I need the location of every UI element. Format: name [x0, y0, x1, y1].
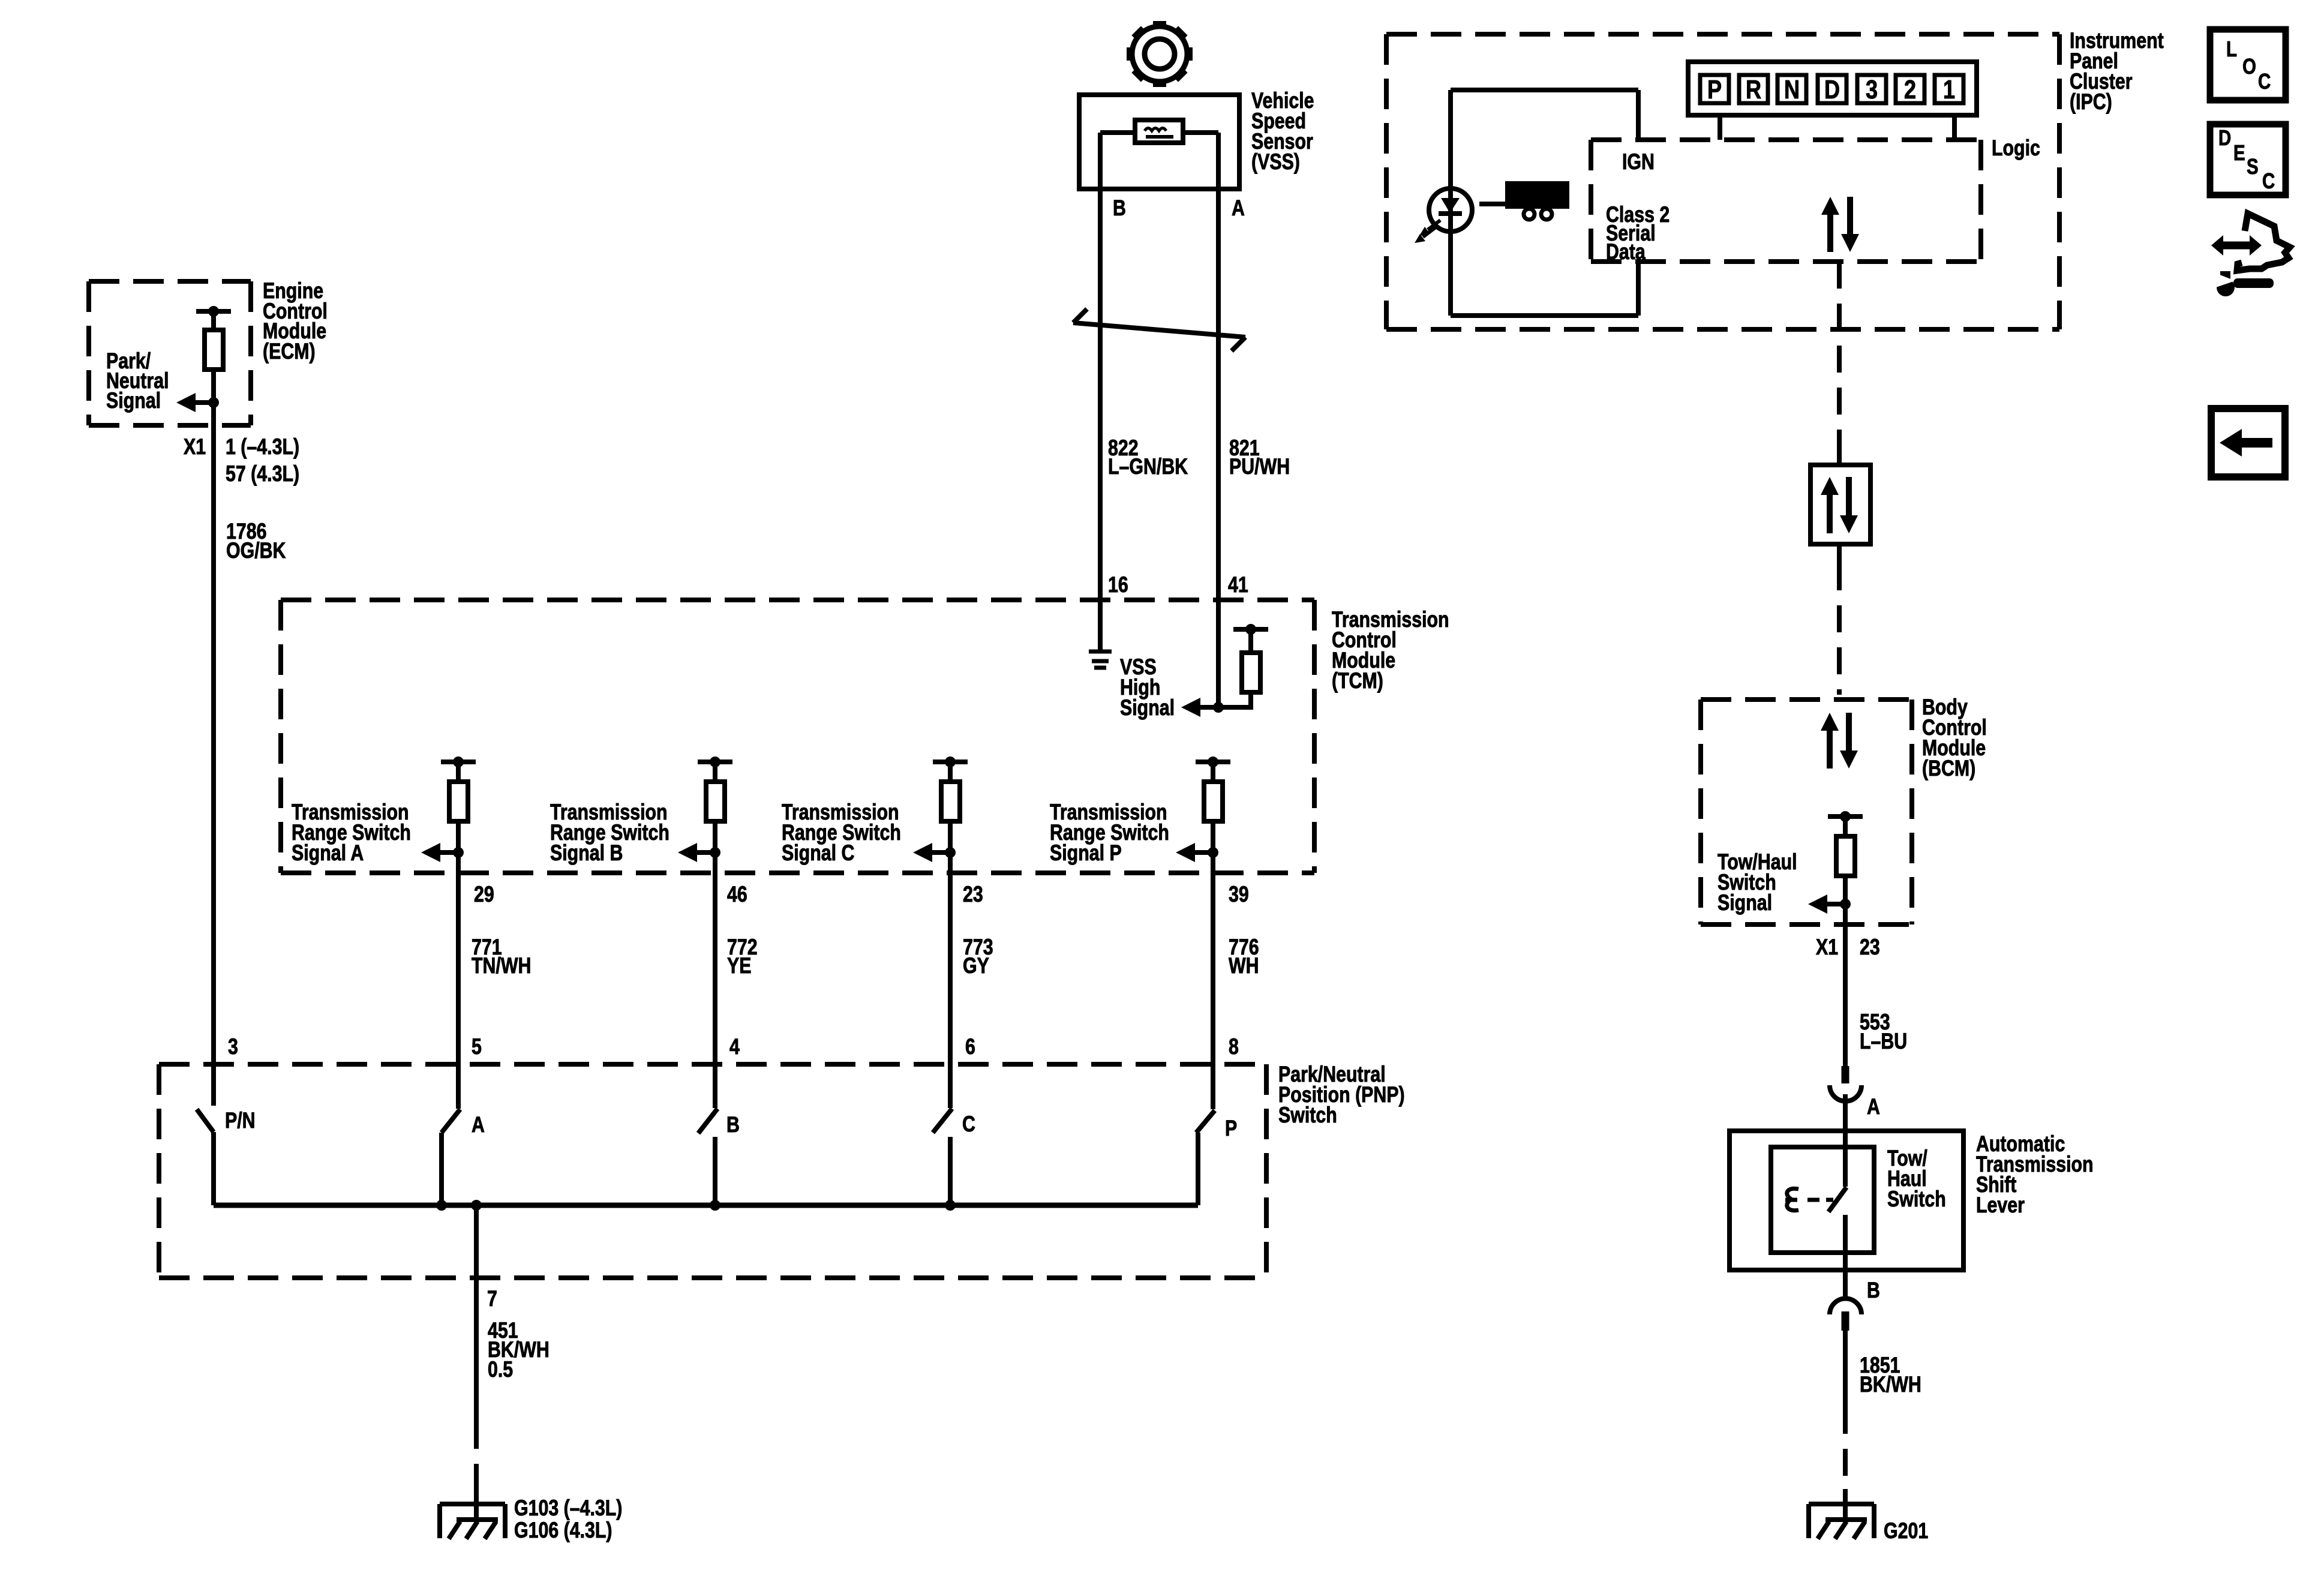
svg-text:IGN: IGN: [1622, 149, 1655, 175]
svg-text:A: A: [472, 1112, 485, 1137]
label TCM: [1332, 607, 1449, 694]
svg-text:WH: WH: [1229, 953, 1259, 978]
pin 4 label: [729, 1034, 740, 1059]
svg-text:OG/BK: OG/BK: [226, 538, 286, 563]
pin 6 label: [965, 1034, 975, 1059]
display segment 3: [1857, 75, 1886, 104]
wire elbow resistor to node 41: [1218, 705, 1253, 710]
svg-text:C: C: [2262, 169, 2275, 193]
svg-text:3: 3: [228, 1034, 238, 1059]
svg-text:Signal: Signal: [106, 388, 161, 413]
wire stub PRND to Logic left: [1718, 115, 1722, 140]
label wire 776 WH: [1229, 935, 1259, 978]
sensor element (VSS pickup coil): [1135, 120, 1183, 143]
svg-text:G201: G201: [1884, 1518, 1928, 1544]
label G106 (4.3L): [514, 1518, 612, 1543]
component box Tow/Haul Switch (inner): [1771, 1147, 1874, 1253]
svg-text:Signal A: Signal A: [292, 840, 364, 866]
label Class 2 Serial Data: [1606, 202, 1670, 265]
svg-text:B: B: [726, 1112, 740, 1137]
svg-text:57 (4.3L): 57 (4.3L): [226, 461, 299, 487]
switch P/N contact blade: [197, 1109, 214, 1205]
svg-text:(VSS): (VSS): [1251, 149, 1300, 175]
ground G103/G106: [440, 1489, 505, 1539]
display segment R: [1739, 75, 1768, 104]
pin 7 label: [487, 1286, 497, 1311]
label wire 451 BK/WH 0.5: [488, 1318, 550, 1382]
wire 553 L-BU from BCM to shift lever: [1843, 904, 1848, 1067]
pin 57 (4.3L) label: [226, 461, 299, 487]
svg-text:4: 4: [729, 1034, 740, 1059]
pin 23 label: [963, 882, 983, 907]
pin 39 label: [1229, 882, 1249, 907]
svg-text:G106 (4.3L): G106 (4.3L): [514, 1518, 612, 1543]
label wire 822 L-GN/BK: [1108, 436, 1188, 479]
icon box back-arrow: [2211, 409, 2285, 477]
svg-text:39: 39: [1229, 882, 1249, 907]
module box BCM (Body Control Module), dashed: [1701, 700, 1912, 924]
wire 773 GY: [948, 852, 953, 1108]
svg-text:D: D: [2218, 125, 2231, 149]
wire class 2 serial data dashed (to BCM): [1837, 563, 1842, 695]
module box ECM (Engine Control Module), dashed: [89, 281, 251, 425]
svg-text:A: A: [1867, 1094, 1880, 1119]
LED light emission arrows: [1415, 220, 1440, 243]
pin X1 label at BCM: [1816, 935, 1838, 960]
wire IPC indicator loop bottom: [1451, 210, 1638, 316]
arrow up (Logic serial data): [1821, 197, 1839, 252]
pin 5 label: [472, 1034, 482, 1059]
label switch P: [1225, 1116, 1237, 1141]
label switch B: [726, 1112, 740, 1137]
wire into tow/haul switch: [1843, 1130, 1848, 1187]
module box TCM (Transmission Control Module), dashed: [281, 600, 1314, 873]
wire 822 L-GN/BK from VSS B to TCM pin 16: [1098, 189, 1103, 650]
label ECM: [263, 278, 328, 364]
wire VSS inner loop: [1100, 133, 1218, 189]
arrow Transmission Range Switch Signal P (left): [1176, 843, 1213, 862]
svg-text:X1: X1: [184, 434, 206, 460]
svg-text:Signal B: Signal B: [550, 840, 623, 866]
node bus at switch B: [710, 1200, 720, 1211]
wire below tow/haul switch: [1843, 1215, 1848, 1296]
wire IPC indicator loop top: [1451, 90, 1638, 210]
svg-text:TN/WH: TN/WH: [472, 953, 531, 978]
svg-text:5: 5: [472, 1034, 482, 1059]
svg-text:P: P: [1225, 1116, 1237, 1141]
svg-text:PU/WH: PU/WH: [1229, 454, 1290, 479]
svg-text:Signal C: Signal C: [782, 840, 854, 866]
svg-text:L–GN/BK: L–GN/BK: [1108, 454, 1188, 479]
svg-text:C: C: [2258, 69, 2271, 93]
svg-text:D: D: [1824, 75, 1840, 104]
node bus at wire 7 tap: [471, 1200, 482, 1211]
arrow Transmission Range Switch Signal B (left): [678, 843, 715, 862]
svg-text:(TCM): (TCM): [1332, 668, 1383, 694]
wire 772 YE: [713, 852, 717, 1108]
svg-text:Lever: Lever: [1976, 1193, 2025, 1218]
arrow down (serial data box): [1840, 477, 1858, 533]
svg-text:8: 8: [1229, 1034, 1239, 1059]
pin 41 label at TCM: [1228, 572, 1248, 598]
switch A contact blade: [442, 1109, 460, 1205]
pin 23 label at BCM: [1860, 935, 1880, 960]
svg-text:23: 23: [1860, 935, 1880, 960]
node bus at switch C: [945, 1200, 956, 1211]
wire 1851 BK/WH from shift lever: [1843, 1331, 1848, 1407]
svg-text:(ECM): (ECM): [263, 339, 316, 364]
pin A label at VSS: [1232, 196, 1245, 221]
svg-text:Signal: Signal: [1120, 695, 1175, 721]
switch tow/haul blade: [1828, 1187, 1846, 1212]
ground G201: [1809, 1489, 1874, 1539]
svg-text:41: 41: [1228, 572, 1248, 598]
svg-text:C: C: [962, 1112, 975, 1137]
display segment D: [1818, 75, 1846, 104]
LED tow/haul indicator: [1429, 188, 1472, 232]
label wire 1851 BK/WH: [1860, 1353, 1921, 1397]
svg-text:Switch: Switch: [1887, 1187, 1946, 1212]
detent hook (tow/haul switch): [1785, 1188, 1798, 1210]
svg-text:0.5: 0.5: [488, 1357, 513, 1382]
resistor R-TRS-C inside TCM: [933, 757, 968, 852]
label wire 553 L-BU: [1860, 1010, 1907, 1054]
label Transmission Range Switch Signal A: [292, 800, 411, 866]
svg-text:B: B: [1113, 196, 1126, 221]
svg-text:23: 23: [963, 882, 983, 907]
display segment 1: [1935, 75, 1963, 104]
wire stub into serial data box: [1837, 451, 1842, 465]
svg-text:1: 1: [1943, 75, 1955, 104]
node bus at switch A: [436, 1200, 447, 1211]
resistor R-VSS pull-up inside TCM: [1233, 624, 1268, 707]
svg-text:Signal P: Signal P: [1050, 840, 1122, 866]
label switch A: [472, 1112, 485, 1137]
label IGN: [1622, 149, 1655, 175]
wire connector A to shift lever: [1843, 1094, 1848, 1131]
svg-text:GY: GY: [963, 953, 989, 978]
label G103 (-4.3L): [514, 1496, 622, 1521]
label Automatic Transmission Shift Lever: [1976, 1131, 2094, 1218]
svg-text:3: 3: [1866, 75, 1878, 104]
switch B contact blade: [698, 1109, 717, 1205]
resistor R-TRS-A inside TCM: [441, 757, 476, 852]
label wire 821 PU/WH: [1229, 436, 1290, 479]
logic box (IPC Logic), dashed: [1591, 140, 1981, 262]
svg-text:N: N: [1784, 75, 1800, 104]
arrow Transmission Range Switch Signal C (left): [913, 843, 950, 862]
pin 16 label at TCM: [1108, 572, 1128, 598]
svg-text:S: S: [2247, 154, 2259, 178]
wire 1786 OG/BK from ECM to PNP switch: [211, 403, 216, 1106]
label VSS High Signal: [1120, 655, 1175, 721]
icon box DESC: [2210, 124, 2286, 195]
wire 451 BK/WH from PNP pin 7: [474, 1205, 479, 1422]
node Transmission Range Switch Signal P: [1208, 847, 1218, 858]
label VSS: [1251, 88, 1314, 175]
display segment P: [1700, 75, 1729, 104]
node Transmission Range Switch Signal B: [710, 847, 720, 858]
label G201: [1884, 1518, 1928, 1544]
node Transmission Range Switch Signal C: [945, 847, 956, 858]
svg-text:G103 (–4.3L): G103 (–4.3L): [514, 1496, 622, 1521]
arrow down (BCM serial data): [1840, 713, 1858, 769]
module box IPC (Instrument Panel Cluster), dashed: [1386, 34, 2059, 329]
svg-text:Logic: Logic: [1992, 136, 2040, 161]
icon double arrow: [2211, 235, 2262, 256]
pin 46 label: [727, 882, 747, 907]
pin B label at shift lever: [1867, 1278, 1880, 1303]
label wire 1786 OG/BK: [226, 519, 286, 563]
svg-text:7: 7: [487, 1286, 497, 1311]
wire class 2 serial data dashed (IPC to connector): [1837, 262, 1842, 451]
svg-text:(IPC): (IPC): [2070, 89, 2112, 115]
arrow VSS High Signal (left): [1181, 698, 1218, 717]
arrow Transmission Range Switch Signal A (left): [421, 843, 458, 862]
display segment N: [1777, 75, 1806, 104]
wire common bus inside PNP switch: [214, 1203, 1198, 1208]
svg-text:Data: Data: [1606, 239, 1646, 265]
icon gear (VSS drive gear): [1127, 21, 1193, 87]
label Transmission Range Switch Signal B: [550, 800, 669, 866]
svg-text:P/N: P/N: [225, 1108, 256, 1133]
label Logic: [1992, 136, 2040, 161]
ground signal (TCM internal) for wire 822: [1089, 650, 1112, 668]
node Transmission Range Switch Signal A: [453, 847, 464, 858]
svg-text:46: 46: [727, 882, 747, 907]
svg-text:B: B: [1867, 1278, 1880, 1303]
svg-text:2: 2: [1904, 75, 1916, 104]
display box PRND321: [1688, 62, 1977, 115]
label Transmission Range Switch Signal P: [1050, 800, 1169, 866]
svg-text:Signal: Signal: [1718, 890, 1772, 915]
module box PNP (Park/Neutral Position Switch), dashed: [159, 1064, 1266, 1278]
arrow down (Logic serial data): [1841, 197, 1859, 252]
pin X1 label at ECM: [184, 434, 206, 460]
interrupt break symbol across wires 822/821: [1073, 309, 1245, 351]
pin A label at shift lever: [1867, 1094, 1880, 1119]
pin 8 label: [1229, 1034, 1239, 1059]
connector box serial data (up/down arrows): [1810, 465, 1870, 544]
label wire 773 GY: [963, 935, 993, 978]
node VSS High Signal junction: [1213, 702, 1224, 713]
svg-text:L–BU: L–BU: [1860, 1029, 1907, 1054]
wire stub PRND to Logic right: [1952, 115, 1957, 140]
label wire 771 TN/WH: [472, 935, 531, 978]
label Transmission Range Switch Signal C: [782, 800, 901, 866]
label Tow/Haul Switch: [1887, 1146, 1946, 1212]
label BCM: [1922, 695, 1987, 781]
connector A plug tick: [1842, 1066, 1849, 1083]
arrow Park/Neutral Signal (left): [176, 393, 214, 412]
svg-text:P: P: [1707, 75, 1722, 104]
icon check-vehicle zigzag: [2237, 214, 2290, 271]
wire 451 dashed section to ground: [474, 1422, 479, 1490]
label switch P/N: [225, 1108, 256, 1133]
pin 29 label: [474, 882, 494, 907]
svg-text:BK/WH: BK/WH: [1860, 1372, 1921, 1397]
label PNP Switch: [1278, 1062, 1405, 1128]
wire 1851 dashed section to ground: [1843, 1407, 1848, 1490]
label IPC: [2070, 28, 2164, 115]
svg-text:1 (–4.3L): 1 (–4.3L): [226, 434, 299, 460]
svg-text:L: L: [2226, 37, 2237, 61]
resistor R-BCM tow/haul pull-up: [1828, 811, 1863, 904]
node Tow/Haul Switch Signal junction: [1840, 899, 1851, 909]
svg-text:R: R: [1746, 75, 1761, 104]
label Tow/Haul Switch Signal: [1718, 849, 1797, 915]
resistor R-TRS-P inside TCM: [1196, 757, 1230, 852]
icon box LOC: [2210, 29, 2286, 100]
svg-text:16: 16: [1108, 572, 1128, 598]
pin B label at VSS: [1113, 196, 1126, 221]
label wire 772 YE: [727, 935, 758, 978]
component box Automatic Transmission Shift Lever: [1730, 1131, 1963, 1270]
arrow up (BCM serial data): [1821, 713, 1839, 769]
pin 3 label: [228, 1034, 238, 1059]
node ECM signal junction: [208, 397, 219, 408]
arrow up (serial data box): [1821, 477, 1839, 533]
svg-text:29: 29: [474, 882, 494, 907]
resistor R-TRS-B inside TCM: [698, 757, 732, 852]
icon wrench: [2212, 271, 2274, 296]
wire 776 WH: [1211, 852, 1215, 1109]
wire 821 PU/WH from VSS A to TCM pin 41: [1216, 189, 1221, 707]
svg-text:Switch: Switch: [1278, 1103, 1337, 1128]
display segment 2: [1896, 75, 1924, 104]
label switch C: [962, 1112, 975, 1137]
connector B halfmoon: [1830, 1299, 1861, 1315]
linkage dashes (tow/haul switch): [1807, 1198, 1833, 1202]
svg-text:X1: X1: [1816, 935, 1838, 960]
pin 1 (-4.3L) label: [226, 434, 299, 460]
wire 771 TN/WH: [456, 852, 461, 1109]
svg-text:O: O: [2242, 54, 2256, 78]
wire stub below serial data box: [1837, 544, 1842, 563]
switch C contact blade: [933, 1109, 952, 1205]
icon trailer (tow/haul): [1479, 181, 1569, 220]
svg-text:A: A: [1232, 196, 1245, 221]
svg-text:YE: YE: [727, 953, 751, 978]
svg-text:6: 6: [965, 1034, 975, 1059]
connector A halfmoon: [1830, 1085, 1861, 1101]
arrow Tow/Haul Switch Signal (left): [1808, 894, 1845, 914]
resistor R-ECM pull-up inside ECM: [196, 306, 231, 403]
connector B plug tick: [1842, 1311, 1849, 1331]
switch P contact blade: [1196, 1110, 1215, 1205]
component box VSS (Vehicle Speed Sensor): [1079, 95, 1239, 189]
label Park/Neutral Signal: [106, 349, 169, 413]
svg-text:(BCM): (BCM): [1922, 756, 1975, 781]
svg-text:E: E: [2233, 140, 2245, 164]
